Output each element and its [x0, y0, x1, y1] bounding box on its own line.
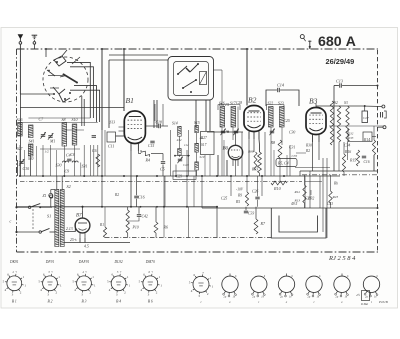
- wire: [258, 139, 261, 152]
- wire: [266, 90, 277, 106]
- svg-text:R9: R9: [237, 194, 242, 198]
- svg-text:C9: C9: [65, 169, 70, 174]
- junction: [101, 175, 103, 177]
- battery box: [362, 291, 370, 301]
- wire: [137, 151, 139, 154]
- svg-text:S23: S23: [278, 102, 284, 106]
- wire: [64, 223, 75, 232]
- resistor R33: [258, 152, 262, 173]
- wire: [164, 176, 166, 207]
- wire: [329, 125, 383, 127]
- wire: [279, 158, 281, 183]
- wire: [45, 49, 47, 57]
- svg-text:C10: C10: [23, 166, 30, 171]
- wire: [82, 207, 84, 211]
- bus main: [300, 175, 340, 177]
- resistor R17: [329, 191, 332, 203]
- svg-text:B 3: B 3: [82, 300, 87, 304]
- svg-text:B6: B6: [223, 147, 229, 152]
- wire: [226, 160, 228, 176]
- svg-text:C5: C5: [160, 167, 165, 172]
- wire: [235, 132, 237, 145]
- wire: [373, 155, 375, 171]
- wire: [202, 207, 378, 209]
- wire: [20, 93, 54, 95]
- wire: [273, 150, 275, 176]
- wire: [155, 233, 157, 238]
- capacitor C1: [48, 135, 52, 137]
- wire: [19, 145, 21, 176]
- wire: [286, 155, 288, 176]
- svg-text:C30: C30: [289, 131, 295, 135]
- svg-text:S1: S1: [47, 214, 51, 219]
- wire: [175, 155, 190, 157]
- svg-text:R88: R88: [247, 150, 254, 154]
- wire: [326, 158, 328, 238]
- frame left border: [16, 49, 18, 252]
- wire: [204, 155, 206, 176]
- coil S20: [195, 162, 199, 170]
- coil S25: [28, 125, 33, 138]
- svg-text:C28: C28: [305, 197, 311, 201]
- svg-text:S31: S31: [82, 164, 88, 169]
- AVC line: [20, 180, 302, 182]
- svg-text:S13: S13: [110, 121, 116, 125]
- junction: [156, 175, 158, 177]
- svg-text:233: 233: [349, 136, 354, 140]
- wire: [264, 132, 266, 176]
- svg-text:R2: R2: [114, 193, 119, 197]
- svg-text:4½: 4½: [356, 293, 361, 297]
- capacitor C3: [92, 135, 96, 137]
- svg-text:C35: C35: [292, 154, 298, 158]
- wire: [104, 207, 106, 227]
- wire: [127, 207, 129, 210]
- wire: [281, 127, 283, 145]
- wire: [316, 105, 362, 107]
- svg-text:S17: S17: [201, 143, 207, 147]
- wire: [245, 207, 247, 210]
- svg-text:C15: C15: [148, 144, 154, 148]
- wire: [153, 100, 155, 128]
- wire: [93, 145, 95, 176]
- wire: [138, 207, 140, 214]
- wire: [19, 44, 21, 94]
- wire: [33, 44, 35, 49]
- trimmer C23: [221, 130, 225, 132]
- wire: [362, 105, 382, 108]
- wire: [178, 155, 180, 157]
- resistor R10b: [126, 210, 129, 233]
- wire: [163, 176, 165, 207]
- socket aux 3: [278, 276, 294, 292]
- wire: [196, 133, 198, 144]
- wire: [226, 130, 229, 132]
- wire: [209, 155, 211, 176]
- svg-text:Z1: Z1: [43, 194, 47, 198]
- wire: [235, 160, 237, 176]
- svg-text:112: 112: [184, 143, 189, 147]
- svg-text:S41: S41: [29, 139, 35, 144]
- wire: [248, 139, 250, 176]
- bus right dashdot: [302, 174, 378, 176]
- svg-text:C29: C29: [176, 175, 182, 179]
- resistor R7: [254, 219, 258, 234]
- coil S32: [178, 126, 182, 136]
- svg-text:R15: R15: [349, 159, 356, 163]
- svg-text:S2: S2: [334, 101, 338, 105]
- wire: [127, 233, 129, 238]
- svg-text:RJ 2 5 8 4: RJ 2 5 8 4: [328, 255, 356, 262]
- resistor R11: [337, 106, 340, 142]
- wire: [135, 176, 137, 195]
- wire: [280, 90, 299, 106]
- wire: [217, 155, 219, 176]
- wire: [40, 148, 80, 150]
- svg-text:S27: S27: [17, 147, 23, 151]
- wire: [330, 203, 332, 208]
- svg-text:R6: R6: [163, 225, 168, 230]
- switch link: [32, 209, 34, 230]
- coil S33: [195, 143, 199, 152]
- svg-text:i: i: [314, 300, 315, 304]
- svg-text:S26: S26: [17, 117, 23, 122]
- svg-text:S3: S3: [344, 101, 348, 105]
- wire: [73, 145, 75, 176]
- svg-text:R16: R16: [344, 150, 351, 154]
- junction: [42, 175, 44, 177]
- wire: [312, 142, 314, 171]
- wire: [163, 207, 165, 238]
- wire: [162, 165, 164, 177]
- box C39: [363, 132, 372, 141]
- svg-text:S2: S2: [67, 184, 71, 189]
- svg-text:D.Bat: D.Bat: [360, 302, 368, 306]
- wire: [318, 142, 320, 160]
- wire: [289, 145, 291, 176]
- wire: [241, 132, 243, 160]
- terminal sp1: [382, 105, 385, 108]
- bus bottom: [17, 206, 217, 208]
- tube B2: [244, 106, 264, 132]
- wire: [259, 173, 261, 176]
- svg-text:R5: R5: [235, 200, 240, 204]
- junction: [163, 206, 165, 208]
- wire: [97, 145, 99, 176]
- wire: [207, 131, 243, 133]
- svg-text:C27: C27: [363, 116, 369, 120]
- svg-text:R8: R8: [270, 140, 277, 145]
- wire: [246, 49, 248, 106]
- resistor R1: [96, 154, 100, 167]
- junction: [283, 175, 285, 177]
- electrolytic C27: [362, 111, 368, 123]
- wire: [304, 176, 306, 208]
- resistor R9c: [245, 192, 248, 206]
- capacitor C17: [107, 132, 116, 142]
- tube B6: [228, 145, 242, 159]
- svg-text:1/2: 1/2: [45, 150, 50, 154]
- wire: [270, 127, 272, 176]
- wire: [156, 100, 158, 128]
- svg-text:DAF91: DAF91: [78, 260, 90, 264]
- wire: [319, 176, 321, 208]
- svg-text:DK91: DK91: [9, 260, 19, 264]
- wire: [343, 172, 345, 176]
- wire: [175, 165, 177, 177]
- wire: [172, 176, 174, 207]
- svg-text:R23: R23: [332, 195, 339, 199]
- junction: [123, 175, 125, 177]
- svg-text:R30: R30: [305, 144, 312, 148]
- svg-text:C16: C16: [364, 160, 370, 164]
- svg-text:B2: B2: [248, 96, 257, 105]
- coil S27: [28, 144, 33, 156]
- svg-text:B 2: B 2: [48, 300, 53, 304]
- wire: [130, 151, 132, 206]
- socket B 6: [143, 276, 158, 291]
- wire: [195, 100, 197, 128]
- tube B1: [124, 111, 145, 144]
- wire: [89, 145, 91, 176]
- wire: [334, 170, 378, 172]
- socket aux 2: [251, 276, 267, 292]
- capacitor C29 box: [173, 171, 196, 179]
- wire: [364, 106, 366, 111]
- wire: [230, 176, 232, 196]
- wire: [161, 125, 168, 127]
- svg-text:C13: C13: [336, 79, 343, 84]
- band switch S rear wafer: [168, 57, 214, 101]
- bus -10V: [300, 170, 334, 172]
- svg-text:2.13: 2.13: [66, 227, 73, 231]
- wire: [70, 67, 93, 118]
- svg-text:R1: R1: [99, 223, 104, 227]
- svg-text:C16: C16: [138, 195, 145, 200]
- svg-text:C34: C34: [344, 144, 350, 148]
- wire: [30, 145, 32, 176]
- svg-text:R10: R10: [273, 186, 282, 191]
- wire: [343, 142, 345, 154]
- svg-text:25∿: 25∿: [70, 238, 78, 242]
- socket B 4: [111, 276, 126, 291]
- wire: [338, 142, 340, 171]
- svg-text:680 A: 680 A: [318, 34, 356, 50]
- wire: [56, 150, 58, 176]
- svg-text:c: c: [10, 219, 12, 224]
- wire: [347, 142, 349, 160]
- svg-text:M1: M1: [49, 139, 55, 144]
- wire: [216, 207, 218, 238]
- wire: [271, 208, 326, 238]
- tube B2 pins: [248, 132, 250, 140]
- wire: [83, 99, 85, 126]
- trimmer C25: [270, 130, 274, 132]
- svg-text:C20: C20: [183, 163, 189, 167]
- wire: [36, 146, 38, 176]
- svg-text:i: i: [201, 300, 202, 304]
- junction: [136, 175, 138, 177]
- coil S15: [195, 126, 199, 133]
- junction: [261, 175, 263, 177]
- tube B3: [306, 108, 326, 135]
- socket B 2: [43, 276, 58, 291]
- wire: [28, 117, 90, 119]
- wire: [79, 238, 81, 243]
- wire: [151, 153, 163, 155]
- svg-text:DF91: DF91: [45, 260, 55, 264]
- resistor R88: [254, 152, 257, 170]
- filament line: [105, 237, 271, 239]
- svg-text:B 4: B 4: [116, 300, 121, 304]
- wire: [196, 152, 198, 162]
- wire: [372, 136, 376, 138]
- wire: [123, 49, 125, 111]
- wire: [109, 54, 168, 56]
- wire: [246, 176, 248, 192]
- wire: [295, 167, 330, 169]
- svg-text:C25: C25: [284, 119, 290, 123]
- svg-text:S14: S14: [172, 122, 178, 126]
- wire: [213, 69, 222, 71]
- wire: [17, 160, 19, 176]
- IF can rail: [218, 104, 240, 106]
- frame right border: [377, 50, 379, 252]
- resistor R4: [140, 149, 151, 158]
- wire: [221, 70, 223, 105]
- wire: [257, 200, 259, 207]
- wire: [223, 140, 225, 176]
- wire: [20, 175, 300, 177]
- antenna: [18, 34, 24, 39]
- socket aux 5: [334, 276, 350, 292]
- wire: [334, 85, 339, 87]
- socket aux 1: [222, 276, 238, 292]
- wire: [19, 94, 21, 176]
- svg-text:C11: C11: [108, 144, 114, 149]
- svg-text:26/29/49: 26/29/49: [326, 57, 355, 66]
- junction: [83, 175, 85, 177]
- wire: [186, 150, 188, 207]
- svg-text:Rb: Rb: [333, 182, 338, 186]
- wire: [232, 127, 234, 140]
- tube B3 pins: [312, 135, 314, 143]
- trimmer C10: [19, 161, 23, 163]
- wire: [188, 207, 190, 238]
- trimmer C21: [178, 158, 182, 160]
- wire: [169, 130, 171, 176]
- wire: [162, 104, 164, 126]
- resistor R13: [303, 185, 306, 203]
- box S17b: [201, 132, 215, 155]
- wire: [119, 130, 125, 132]
- wire: [67, 62, 90, 118]
- resistor R1b: [103, 227, 106, 238]
- coil S33a: [178, 149, 182, 155]
- wire: [116, 135, 125, 137]
- wire: [119, 126, 125, 128]
- wire: [101, 130, 103, 206]
- wire: [20, 107, 124, 109]
- terminal pin: [309, 41, 311, 50]
- wire: [373, 126, 375, 140]
- wire: [304, 175, 306, 185]
- wire: [64, 242, 130, 244]
- wire: [101, 49, 103, 130]
- wire: [81, 96, 83, 126]
- frame bottom border: [17, 251, 379, 253]
- svg-text:R13: R13: [294, 199, 301, 203]
- wire: [196, 170, 198, 176]
- wire: [315, 103, 317, 108]
- socket aux 4: [306, 276, 322, 292]
- wire: [261, 176, 263, 196]
- wire: [333, 86, 335, 172]
- wire: [24, 150, 26, 176]
- svg-text:B 1: B 1: [12, 300, 17, 304]
- wire: [104, 130, 106, 176]
- wire: [305, 180, 322, 182]
- terminal P: [300, 35, 304, 39]
- junction: [186, 175, 188, 177]
- wire: [62, 129, 84, 131]
- wire: [205, 100, 207, 131]
- box R9C4: [276, 159, 297, 167]
- wire: [56, 176, 58, 190]
- tube B7: [75, 218, 90, 233]
- wire: [348, 128, 363, 141]
- wire: [178, 136, 180, 148]
- speaker terminal: [380, 112, 382, 118]
- svg-text:49.5: 49.5: [291, 202, 297, 206]
- mains switch pole 1: [28, 206, 30, 208]
- wire: [237, 107, 239, 132]
- coil S31: [72, 161, 78, 163]
- svg-text:DM70: DM70: [145, 260, 155, 264]
- wire: [155, 207, 157, 222]
- tube B1 pins: [130, 144, 132, 152]
- junction: [175, 175, 177, 177]
- terminal out: [383, 126, 386, 129]
- padder C2: [200, 72, 207, 85]
- junction: [201, 175, 203, 177]
- svg-text:-10V: -10V: [236, 188, 244, 192]
- wire: [61, 176, 63, 190]
- wire: [201, 176, 203, 208]
- choke S34: [330, 101, 333, 145]
- svg-text:DL92: DL92: [113, 260, 122, 264]
- wire: [83, 145, 85, 176]
- wire: [42, 145, 44, 176]
- wire: [193, 176, 195, 207]
- wire: [30, 156, 32, 176]
- wire: [296, 152, 306, 154]
- wire: [50, 145, 52, 176]
- wire: [304, 203, 306, 208]
- wire: [108, 60, 110, 128]
- band switch S front wafer: [43, 57, 88, 102]
- svg-text:C42: C42: [142, 215, 148, 219]
- wire: [70, 90, 100, 122]
- transformer T1: [55, 190, 59, 247]
- wire: [109, 59, 168, 61]
- wire: [253, 139, 255, 152]
- resistor R12: [346, 106, 349, 142]
- socket B7: [193, 276, 209, 292]
- mains line upper: [17, 206, 29, 208]
- svg-text:P10: P10: [132, 226, 139, 230]
- svg-text:S19: S19: [200, 155, 205, 159]
